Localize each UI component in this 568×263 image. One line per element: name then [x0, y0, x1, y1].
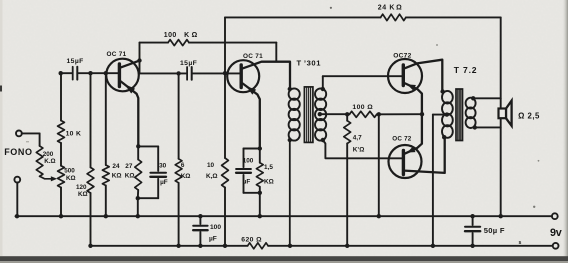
svg-text:KΩ: KΩ	[112, 173, 122, 180]
svg-text:4,7: 4,7	[353, 134, 362, 141]
svg-text:T 7.2: T 7.2	[454, 65, 478, 75]
svg-text:KʼΩ: KʼΩ	[353, 146, 365, 153]
svg-text:s: s	[519, 240, 522, 246]
svg-text:OC 71: OC 71	[107, 51, 127, 58]
svg-text:OC72: OC72	[393, 53, 411, 60]
svg-text:KΩ: KΩ	[66, 175, 76, 182]
svg-text:K,Ω: K,Ω	[206, 173, 218, 180]
svg-text:OC 71: OC 71	[243, 53, 263, 60]
svg-text:620 Ω: 620 Ω	[241, 236, 262, 243]
svg-text:100 K Ω: 100 K Ω	[164, 32, 198, 39]
svg-text:24: 24	[112, 163, 120, 170]
svg-text:Ω 2,5: Ω 2,5	[518, 112, 540, 121]
svg-text:µF: µF	[209, 235, 217, 242]
svg-text:200: 200	[43, 151, 54, 158]
svg-text:T ʼ301: T ʼ301	[297, 59, 322, 68]
svg-text:100: 100	[243, 157, 254, 164]
svg-text:100: 100	[210, 224, 221, 231]
svg-text:15µF: 15µF	[180, 60, 197, 67]
svg-text:KΩ: KΩ	[264, 178, 274, 185]
svg-text:10 K: 10 K	[66, 130, 82, 137]
svg-text:10: 10	[207, 162, 215, 169]
svg-text:9v: 9v	[550, 227, 562, 239]
svg-text:24 K Ω: 24 K Ω	[378, 4, 403, 11]
svg-text:K.Ω: K.Ω	[44, 158, 55, 165]
svg-text:OC 72: OC 72	[392, 135, 411, 142]
svg-text:FONO: FONO	[4, 147, 32, 157]
svg-text:KΩ: KΩ	[125, 173, 135, 180]
svg-text:50µ F: 50µ F	[484, 226, 505, 235]
svg-text:KΩ: KΩ	[78, 191, 88, 198]
svg-text:6: 6	[181, 162, 185, 169]
svg-text:27: 27	[125, 163, 133, 170]
svg-text:1,5: 1,5	[264, 164, 273, 171]
svg-text:µF: µF	[160, 179, 168, 186]
svg-text:30: 30	[159, 162, 167, 169]
svg-text:KΩ: KΩ	[181, 173, 191, 180]
svg-text:500: 500	[64, 168, 75, 175]
svg-text:µF: µF	[243, 178, 251, 185]
svg-text:100 Ω: 100 Ω	[352, 104, 373, 111]
svg-text:15µF: 15µF	[67, 58, 84, 65]
